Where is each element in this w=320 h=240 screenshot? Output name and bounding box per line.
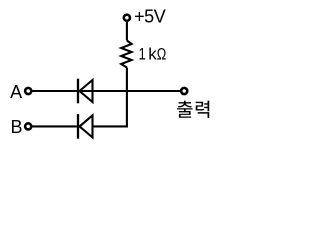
terminal +5V circle [124, 15, 130, 21]
diode D1 cathode bar [77, 79, 79, 104]
resistor R1 1 kOhm zigzag [121, 41, 131, 68]
circuit schematic: diode AND gate with pull-up resistor [0, 0, 220, 149]
input terminal A circle [25, 88, 31, 94]
input terminal B circle [25, 123, 31, 129]
svg-text:k: k [148, 45, 157, 64]
output terminal circle [181, 88, 187, 94]
wire: +5V stub down to resistor [126, 22, 128, 41]
wire: input A row horizontal [32, 90, 182, 92]
label output (Korean chul) [177, 101, 193, 118]
svg-text:1: 1 [139, 45, 146, 64]
wire: input B row horizontal [32, 125, 77, 127]
svg-text:A: A [10, 82, 22, 102]
svg-text:+5V: +5V [134, 6, 166, 26]
diode D2 triangle [80, 115, 93, 137]
diode D1 triangle [80, 80, 93, 102]
wire: resistor bottom lead to junction [126, 68, 128, 93]
svg-text:Ω: Ω [157, 45, 167, 64]
svg-text:B: B [11, 117, 23, 137]
label output (Korean ryeok) [196, 101, 210, 118]
diode D2 cathode bar [77, 114, 79, 139]
wire: diode B output to riser up to node [93, 92, 127, 126]
